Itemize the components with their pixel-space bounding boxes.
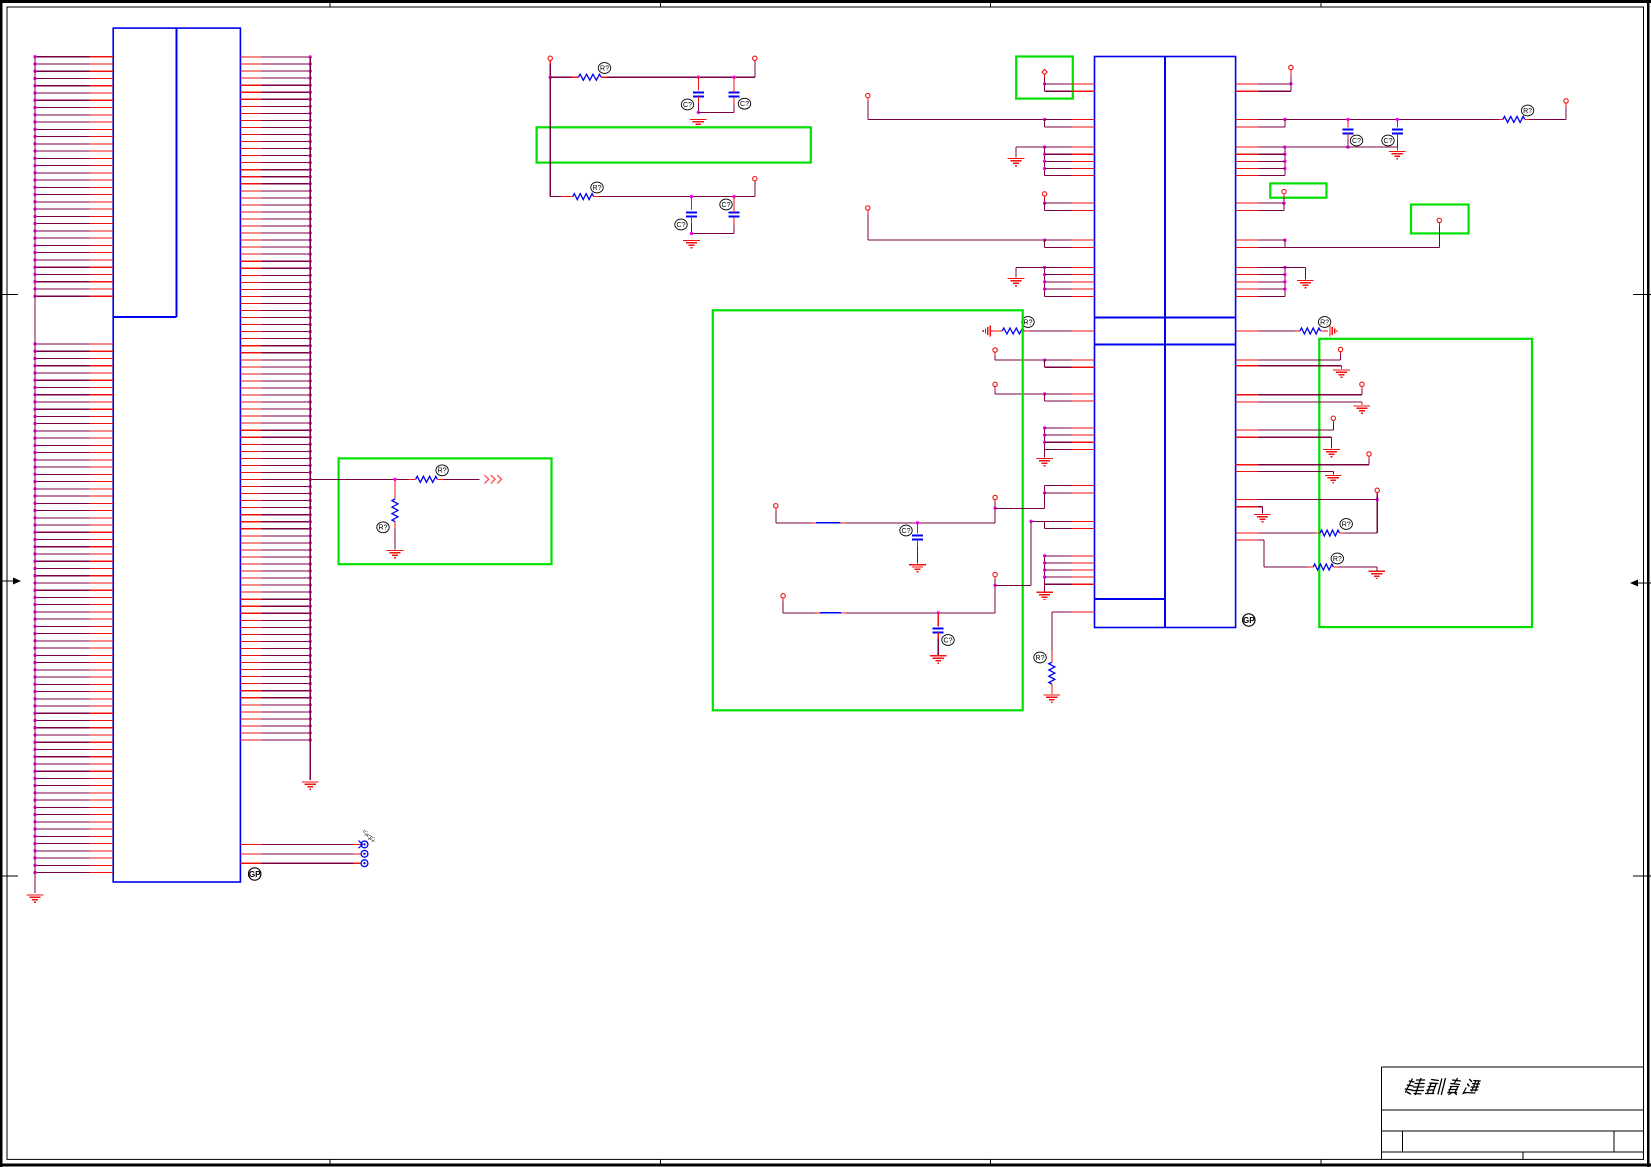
svg-text:R?: R? — [1333, 556, 1342, 563]
svg-text:R?: R? — [1024, 319, 1033, 326]
svg-text:C?: C? — [1384, 138, 1393, 145]
svg-text:C?: C? — [683, 102, 692, 109]
svg-text:R?: R? — [1523, 108, 1532, 115]
svg-text:GP: GP — [1243, 616, 1255, 625]
svg-text:C?: C? — [677, 222, 686, 229]
svg-text:R?: R? — [600, 65, 609, 72]
svg-text:R?: R? — [1342, 521, 1351, 528]
svg-text:R?: R? — [1320, 319, 1329, 326]
svg-text:R?: R? — [1036, 655, 1045, 662]
svg-text:C?: C? — [1352, 138, 1361, 145]
svg-text:R?: R? — [379, 525, 388, 532]
svg-text:GP: GP — [249, 870, 261, 879]
svg-text:C?: C? — [722, 202, 731, 209]
svg-text:C?: C? — [902, 528, 911, 535]
svg-text:R?: R? — [438, 468, 447, 475]
svg-text:C?: C? — [944, 637, 953, 644]
svg-text:x?: x? — [371, 836, 377, 842]
svg-text:R?: R? — [593, 185, 602, 192]
svg-text:C?: C? — [740, 101, 749, 108]
